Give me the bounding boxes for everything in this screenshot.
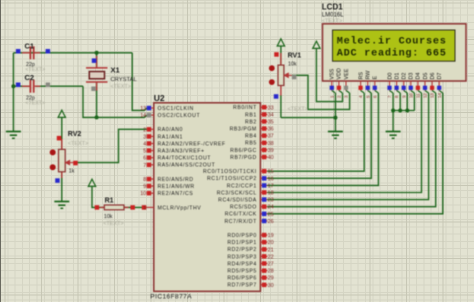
svg-text:LCD1: LCD1 <box>322 3 343 12</box>
svg-text:D5: D5 <box>423 73 429 80</box>
svg-text:27: 27 <box>268 262 274 268</box>
svg-text:X1: X1 <box>111 66 120 75</box>
svg-text:D2: D2 <box>402 73 408 80</box>
svg-text:10k: 10k <box>104 214 113 220</box>
svg-text:18: 18 <box>268 191 274 197</box>
svg-text:1k: 1k <box>69 169 75 175</box>
svg-text:RB2: RB2 <box>245 119 257 125</box>
svg-text:5: 5 <box>143 149 146 155</box>
svg-text:RC6/TX/CK: RC6/TX/CK <box>225 212 257 218</box>
svg-text:2: 2 <box>143 127 146 133</box>
svg-text:12: 12 <box>423 93 428 98</box>
svg-text:RD0/PSP0: RD0/PSP0 <box>227 233 256 239</box>
svg-text:RD5/PSP5: RD5/PSP5 <box>227 269 256 275</box>
svg-text:RB3/PGM: RB3/PGM <box>230 127 257 133</box>
svg-text:36: 36 <box>268 127 274 133</box>
svg-text:OSC1/CLKIN: OSC1/CLKIN <box>158 106 194 112</box>
svg-text:13: 13 <box>430 93 435 98</box>
svg-text:RV1: RV1 <box>288 52 302 59</box>
svg-text:6: 6 <box>143 156 146 162</box>
svg-text:8: 8 <box>394 95 399 98</box>
svg-text:<TEXT>: <TEXT> <box>111 84 131 90</box>
svg-text:26: 26 <box>268 219 274 225</box>
svg-text:8: 8 <box>143 177 146 183</box>
svg-text:2: 2 <box>337 95 342 98</box>
svg-text:10k: 10k <box>288 61 297 67</box>
svg-text:VDD: VDD <box>337 68 343 79</box>
svg-text:RW: RW <box>366 70 372 80</box>
svg-text:29: 29 <box>268 276 274 282</box>
svg-text:ADC reading: 665: ADC reading: 665 <box>337 48 447 60</box>
svg-text:RD4/PSP4: RD4/PSP4 <box>227 261 256 267</box>
svg-text:RA2/AN2/VREF-/CVREF: RA2/AN2/VREF-/CVREF <box>158 141 226 147</box>
svg-text:30: 30 <box>268 283 274 289</box>
svg-text:10: 10 <box>140 191 146 197</box>
svg-text:6: 6 <box>372 95 377 98</box>
svg-text:24: 24 <box>268 205 274 211</box>
svg-text:RA3/AN3/VREF+: RA3/AN3/VREF+ <box>158 149 205 155</box>
svg-text:34: 34 <box>268 112 274 118</box>
svg-text:RV2: RV2 <box>68 131 82 138</box>
svg-text:11: 11 <box>416 93 421 98</box>
svg-text:7: 7 <box>143 163 146 169</box>
svg-text:14: 14 <box>140 113 146 119</box>
svg-text:RB0/INT: RB0/INT <box>233 105 257 111</box>
svg-text:15: 15 <box>268 169 274 175</box>
svg-text:RD6/PSP6: RD6/PSP6 <box>227 276 256 282</box>
svg-text:RA4/T0CKI/C1OUT: RA4/T0CKI/C1OUT <box>158 156 212 162</box>
svg-text:PIC16F877A: PIC16F877A <box>150 294 192 301</box>
svg-text:16: 16 <box>268 176 274 182</box>
svg-text:38: 38 <box>268 141 274 147</box>
svg-text:35: 35 <box>268 120 274 126</box>
svg-text:RE0/AN5/RD: RE0/AN5/RD <box>158 177 194 183</box>
svg-text:10: 10 <box>408 93 413 98</box>
svg-text:13: 13 <box>140 106 146 112</box>
svg-text:RE1/AN6/WR: RE1/AN6/WR <box>158 184 195 190</box>
svg-text:22: 22 <box>268 254 274 260</box>
svg-text:D6: D6 <box>430 73 436 80</box>
svg-text:VSS: VSS <box>330 68 336 79</box>
svg-text:20: 20 <box>268 240 274 246</box>
svg-text:23: 23 <box>268 198 274 204</box>
svg-text:RC3/SCK/SCL: RC3/SCK/SCL <box>217 190 257 196</box>
svg-text:<TEXT>: <TEXT> <box>68 141 88 147</box>
svg-text:CRYSTAL: CRYSTAL <box>111 77 138 83</box>
svg-text:RB7/PGD: RB7/PGD <box>230 155 257 161</box>
svg-text:RC2/CCP1: RC2/CCP1 <box>227 183 257 189</box>
svg-text:RC5/SDO: RC5/SDO <box>230 205 257 211</box>
svg-text:RA1/AN1: RA1/AN1 <box>158 134 183 140</box>
svg-text:D0: D0 <box>387 73 393 80</box>
svg-text:25: 25 <box>268 212 274 218</box>
svg-text:<TEXT>: <TEXT> <box>288 107 308 113</box>
svg-text:<TEXT>: <TEXT> <box>103 221 123 227</box>
svg-text:D7: D7 <box>437 73 443 80</box>
svg-text:MCLR/Vpp/THV: MCLR/Vpp/THV <box>158 205 202 211</box>
svg-text:R1: R1 <box>105 198 114 205</box>
svg-text:3: 3 <box>143 134 146 140</box>
svg-text:RB6/PGC: RB6/PGC <box>230 148 257 154</box>
svg-text:4: 4 <box>143 142 146 148</box>
svg-text:3: 3 <box>344 95 349 98</box>
svg-text:1: 1 <box>329 95 334 98</box>
svg-text:19: 19 <box>268 233 274 239</box>
svg-text:5: 5 <box>365 95 370 98</box>
svg-text:RC0/T1OSO/T1CKI: RC0/T1OSO/T1CKI <box>203 169 257 175</box>
svg-text:RC7/RX/DT: RC7/RX/DT <box>224 219 257 225</box>
svg-text:7: 7 <box>387 95 392 98</box>
svg-text:28: 28 <box>268 269 274 275</box>
svg-text:RD3/PSP3: RD3/PSP3 <box>227 254 256 260</box>
svg-text:RE2/AN7/CS: RE2/AN7/CS <box>158 191 194 197</box>
svg-text:RD2/PSP2: RD2/PSP2 <box>227 247 256 253</box>
svg-text:14: 14 <box>437 93 442 98</box>
svg-text:OSC2/CLKOUT: OSC2/CLKOUT <box>158 113 201 119</box>
svg-text:40: 40 <box>268 155 274 161</box>
svg-text:D1: D1 <box>394 73 400 80</box>
svg-text:RB4: RB4 <box>245 134 257 140</box>
svg-text:21: 21 <box>268 247 274 253</box>
svg-text:RB5: RB5 <box>245 141 257 147</box>
svg-text:1: 1 <box>143 205 146 211</box>
svg-text:4: 4 <box>358 95 363 98</box>
svg-text:C1: C1 <box>25 41 35 50</box>
svg-text:9: 9 <box>143 184 146 190</box>
svg-text:RA0/AN0: RA0/AN0 <box>158 127 183 133</box>
svg-text:D4: D4 <box>416 73 422 80</box>
svg-text:<TEXT>: <TEXT> <box>25 101 45 107</box>
svg-text:RC4/SDI/SDA: RC4/SDI/SDA <box>218 198 257 204</box>
svg-text:RD1/PSP1: RD1/PSP1 <box>227 240 256 246</box>
svg-text:33: 33 <box>268 105 274 111</box>
svg-text:17: 17 <box>268 183 274 189</box>
svg-text:E: E <box>373 76 379 80</box>
svg-text:Melec.ir Courses: Melec.ir Courses <box>337 35 447 47</box>
svg-text:C2: C2 <box>25 73 35 82</box>
svg-text:RD7/PSP7: RD7/PSP7 <box>227 283 256 289</box>
svg-text:VEE: VEE <box>344 68 350 79</box>
svg-text:RC1/T1OSI/CCP2: RC1/T1OSI/CCP2 <box>207 176 257 182</box>
svg-text:D3: D3 <box>409 73 415 80</box>
svg-text:37: 37 <box>268 134 274 140</box>
svg-text:U2: U2 <box>154 93 165 103</box>
svg-text:RB1: RB1 <box>245 112 257 118</box>
svg-text:9: 9 <box>401 95 406 98</box>
svg-text:RS: RS <box>358 72 364 80</box>
svg-text:RA5/AN4/SS/C2OUT: RA5/AN4/SS/C2OUT <box>158 163 216 169</box>
svg-text:39: 39 <box>268 148 274 154</box>
